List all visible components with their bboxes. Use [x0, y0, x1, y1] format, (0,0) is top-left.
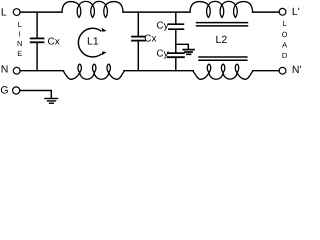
svg-text:I: I [19, 30, 21, 39]
svg-text:O: O [282, 30, 288, 39]
capacitor Cx (left) stem top [36, 12, 38, 38]
wire to chassis ground [176, 44, 189, 49]
inductor L2 core (lower pair) [199, 56, 247, 58]
inductor L2 core (upper pair) [197, 22, 248, 24]
svg-text:D: D [282, 51, 288, 60]
svg-text:L: L [283, 19, 287, 28]
wire L2 to N' terminal [253, 70, 279, 72]
svg-text:L: L [1, 7, 7, 19]
svg-text:N: N [1, 64, 9, 76]
capacitor Cy (lower) stem [175, 57, 177, 70]
svg-text:N': N' [292, 64, 302, 76]
capacitor Cx (left) stem bottom [36, 43, 38, 71]
capacitor Cx (middle) stem top [137, 12, 139, 36]
terminal N [13, 67, 20, 74]
terminal L [13, 9, 20, 16]
svg-text:Cx: Cx [48, 37, 60, 48]
terminal N' [279, 67, 286, 74]
wire L1 to L2 (bottom) [124, 70, 193, 72]
label LOAD (vertical) [282, 19, 288, 60]
label LINE (vertical) [17, 20, 22, 58]
capacitor Cx (middle) stem bottom [137, 41, 139, 71]
svg-text:L: L [18, 20, 22, 29]
capacitor Cy (upper) plates [169, 23, 184, 25]
svg-text:Cx: Cx [144, 34, 156, 45]
wire Cy midpoint [175, 30, 177, 53]
wire N terminal to L1 [20, 70, 63, 72]
wire L1 to L2 [123, 11, 190, 13]
wire G terminal to earth [20, 91, 52, 99]
svg-text:N: N [17, 39, 22, 48]
inductor L1 circulating-flux arrow [78, 28, 101, 57]
capacitor Cy (upper) stem [175, 12, 177, 24]
svg-text:G: G [0, 85, 8, 97]
chassis ground symbol [183, 49, 194, 51]
svg-text:L1: L1 [87, 36, 99, 48]
inductor L2 top winding [190, 1, 253, 17]
inductor L1 bottom winding [63, 64, 125, 79]
svg-text:Cy: Cy [156, 21, 168, 32]
svg-text:A: A [282, 41, 287, 50]
wire L terminal to L1 [20, 11, 62, 13]
capacitor Cy (lower) plates [168, 52, 184, 54]
terminal G [13, 87, 20, 94]
earth ground symbol [45, 98, 58, 100]
svg-text:Cy: Cy [156, 49, 168, 60]
svg-text:L2: L2 [216, 34, 228, 46]
svg-text:L': L' [292, 6, 300, 18]
svg-text:E: E [17, 49, 22, 58]
terminal L' [279, 8, 286, 15]
wire L2 to L' terminal [253, 11, 280, 13]
inductor L1 top winding [62, 1, 123, 17]
inductor L2 bottom winding [193, 64, 253, 79]
capacitor Cx (middle) plates [132, 36, 145, 38]
capacitor Cx (left) plates [31, 37, 44, 39]
